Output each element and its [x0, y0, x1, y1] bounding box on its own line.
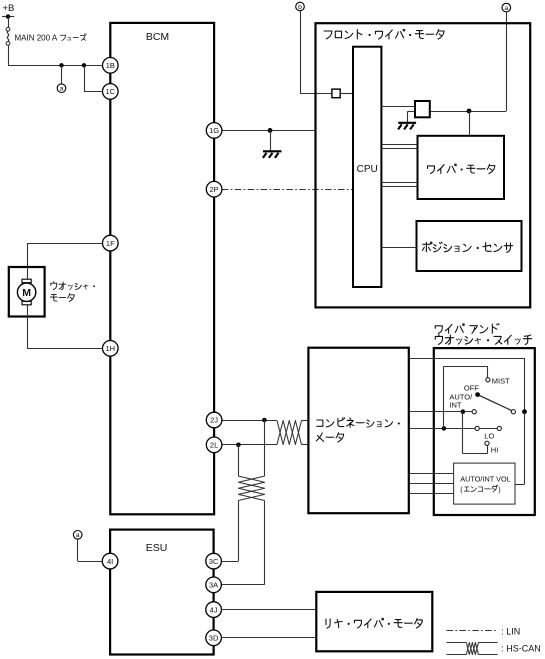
svg-text:: HS-CAN: : HS-CAN [501, 644, 541, 654]
svg-text:ESU: ESU [146, 542, 168, 554]
svg-text:M: M [22, 287, 31, 299]
svg-text:OFF: OFF [464, 384, 479, 393]
svg-text:CPU: CPU [357, 164, 378, 175]
svg-text:INT: INT [449, 401, 462, 410]
svg-text:LO: LO [484, 432, 494, 441]
svg-text:+B: +B [3, 3, 15, 14]
svg-text:2P: 2P [210, 185, 219, 194]
svg-text:1G: 1G [209, 126, 219, 135]
svg-text:b: b [298, 4, 302, 11]
svg-text:1B: 1B [106, 61, 115, 70]
svg-text:AUTO/INT VOL: AUTO/INT VOL [460, 474, 510, 483]
svg-text:2J: 2J [210, 416, 218, 425]
svg-text:a: a [504, 5, 508, 12]
svg-text:: LIN: : LIN [501, 626, 520, 636]
svg-text:4J: 4J [210, 605, 218, 614]
svg-text:3A: 3A [209, 581, 218, 590]
svg-text:MIST: MIST [492, 376, 510, 385]
svg-text:1C: 1C [106, 87, 116, 96]
svg-text:2L: 2L [210, 441, 218, 450]
svg-text:MAIN 200 A: MAIN 200 A [15, 33, 58, 42]
svg-text:4I: 4I [107, 557, 113, 566]
svg-text:HI: HI [491, 446, 499, 455]
svg-text:3D: 3D [209, 634, 219, 643]
svg-text:a: a [76, 532, 80, 539]
svg-text:3C: 3C [209, 557, 219, 566]
svg-text:): ) [498, 485, 500, 494]
svg-text:a: a [60, 86, 64, 93]
svg-text:1H: 1H [106, 344, 116, 353]
svg-text:BCM: BCM [146, 31, 169, 43]
svg-text:1F: 1F [106, 239, 115, 248]
